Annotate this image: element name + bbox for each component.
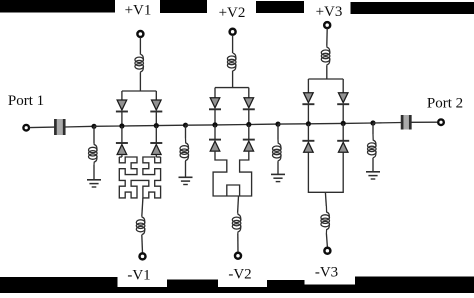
- wire U tap down: [324, 192, 327, 206]
- main line node C to stage3: [278, 123, 308, 125]
- diode D11 (shunt): [302, 140, 314, 142]
- node A junction: [91, 124, 96, 129]
- inductor L8 (bias -V2): [238, 213, 241, 221]
- node stage3 left junction: [306, 121, 311, 126]
- svg-text:Port 1: Port 1: [8, 93, 44, 109]
- wire to diode D2: [155, 91, 157, 100]
- main line node A to stage1: [94, 125, 122, 127]
- wire +V1 to L5: [139, 37, 141, 54]
- inductor L9 (bias +V3): [327, 46, 330, 54]
- wire fractal tap down: [142, 198, 143, 217]
- wire L1 to ground: [93, 165, 95, 180]
- diode D2 (series): [152, 100, 162, 110]
- wire C1 to node A: [64, 125, 94, 128]
- node stage2 right junction: [246, 122, 251, 127]
- inductor L7 (bias +V2): [233, 53, 236, 60]
- ground 4: [366, 171, 380, 173]
- wire port1 to C1: [30, 126, 56, 129]
- inductor L2 (shunt): [186, 138, 189, 149]
- node stage3 right junction: [341, 121, 346, 126]
- bottom mask bar 2: [167, 280, 218, 294]
- main line stage1 to node B: [156, 124, 185, 126]
- wire L9 down: [326, 65, 328, 79]
- diode D7 (shunt): [209, 139, 221, 141]
- wire node D to C2: [373, 122, 403, 125]
- capacitor C1 (DC block): [55, 119, 64, 135]
- wire stage2 top rail: [215, 87, 249, 89]
- main line across stage3: [308, 122, 343, 124]
- diode D6 (series): [244, 98, 254, 108]
- node stage1 left junction: [119, 123, 124, 128]
- svg-text:+V2: +V2: [219, 5, 246, 21]
- wire L10 to -V3: [326, 234, 327, 248]
- inductor L4 (shunt): [373, 134, 376, 147]
- node B junction: [183, 123, 188, 128]
- svg-text:+V3: +V3: [316, 4, 343, 20]
- wire meander tap down: [237, 196, 240, 213]
- main line node B to stage2: [186, 124, 216, 126]
- wire L6 to -V1: [141, 235, 144, 253]
- wire L2 to ground: [185, 161, 187, 177]
- wire node A down: [93, 126, 95, 143]
- wire stage2 left junction down: [214, 125, 216, 140]
- wire +V2 to L7: [232, 35, 234, 53]
- wire stage3 right junction down: [342, 123, 344, 140]
- wire stage2 right junction down: [248, 125, 250, 140]
- top mask bar 1: [0, 0, 115, 13]
- inductor L6 (bias -V1): [142, 217, 145, 224]
- terminal -V1: [140, 253, 146, 259]
- wire stage3 top rail: [308, 78, 343, 80]
- terminal +V3: [324, 22, 330, 28]
- wire +V3 to L9: [326, 29, 328, 46]
- inductor L5 (bias +V1): [140, 54, 143, 61]
- wire to diode D9: [307, 79, 309, 93]
- wire L3 to ground: [277, 162, 279, 175]
- main line stage2 to node C: [249, 123, 278, 125]
- inductor L1 (shunt): [94, 143, 97, 151]
- diode D9 (series): [304, 93, 314, 103]
- wire stage1 right junction down: [155, 126, 157, 143]
- wire stage3 left junction down: [307, 124, 309, 141]
- diode D8 (shunt): [243, 139, 255, 141]
- bottom mask notch filler: [305, 285, 356, 288]
- diode D3 (shunt): [116, 142, 128, 144]
- wire L8 to -V2: [237, 234, 239, 253]
- terminal -V2: [235, 253, 241, 259]
- inductor L3 (shunt): [278, 140, 281, 150]
- wire C2 to port2: [410, 121, 438, 123]
- wire stage1 left junction down: [121, 126, 123, 143]
- wire stage3 U link: [308, 152, 343, 192]
- terminal -V3: [324, 248, 330, 254]
- ground 2: [179, 176, 193, 178]
- diode D5 (series): [210, 98, 220, 108]
- ground 1: [87, 179, 101, 181]
- diode D10 (series): [338, 93, 348, 103]
- svg-text:-V3: -V3: [315, 265, 338, 281]
- main line across stage2: [215, 124, 249, 126]
- wire node C down: [277, 124, 279, 139]
- diode D4 (shunt): [150, 142, 162, 144]
- bottom mask strip: [0, 287, 474, 293]
- wire node B down: [185, 125, 187, 138]
- terminal +V1: [137, 31, 143, 37]
- diode D12 (shunt): [337, 140, 349, 142]
- node C junction: [275, 122, 280, 127]
- port 1 terminal: [23, 125, 29, 131]
- wire to diode D1: [121, 91, 123, 100]
- port 2 terminal: [438, 119, 444, 125]
- wire L5 down: [139, 73, 141, 92]
- bottom mask bar 3: [267, 280, 305, 293]
- wire L4 to ground: [372, 158, 374, 172]
- bottom mask bar 4: [355, 277, 474, 294]
- top mask bar 3: [256, 1, 304, 13]
- meander line TL2 (slow-wave): [213, 151, 252, 196]
- wire node D down: [372, 123, 374, 134]
- node D junction: [370, 120, 375, 125]
- bottom mask bar 1: [0, 277, 118, 293]
- main line across stage1: [122, 125, 156, 127]
- main line stage3 to node D: [343, 122, 373, 124]
- node stage1 right junction: [154, 123, 159, 128]
- wire stage1 top rail: [122, 90, 156, 92]
- svg-text:-V2: -V2: [228, 267, 251, 283]
- wire L7 down: [232, 71, 234, 88]
- capacitor C2 (DC block): [402, 115, 410, 130]
- ground 3: [271, 173, 285, 175]
- top mask bar 4: [351, 2, 474, 14]
- node stage2 left junction: [212, 122, 217, 127]
- svg-text:+V1: +V1: [125, 3, 152, 19]
- svg-text:Port 2: Port 2: [427, 96, 463, 112]
- diode D1 (series): [117, 100, 127, 110]
- fractal meander line TL1 (Hilbert slow-wave): [121, 154, 123, 157]
- svg-text:-V1: -V1: [127, 268, 150, 284]
- wire to diode D5: [214, 88, 216, 98]
- wire to diode D10: [342, 79, 344, 93]
- terminal +V2: [230, 29, 236, 35]
- top mask bar 2: [160, 0, 207, 13]
- wire to diode D6: [248, 88, 250, 98]
- inductor L10 (bias -V3): [326, 206, 329, 219]
